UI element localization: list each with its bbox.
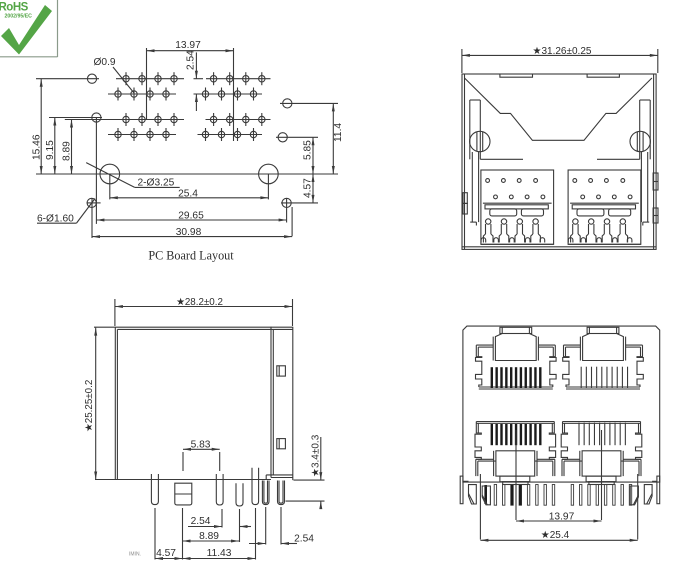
svg-text:2.54: 2.54 (191, 516, 211, 527)
svg-text:Ø0.9: Ø0.9 (94, 57, 116, 68)
svg-text:13.97: 13.97 (175, 40, 201, 51)
svg-text:PC Board Layout: PC Board Layout (148, 249, 234, 263)
svg-text:2.54: 2.54 (294, 534, 314, 545)
svg-text:4.57: 4.57 (303, 178, 314, 198)
svg-text:★31.26±0.25: ★31.26±0.25 (533, 46, 592, 57)
svg-text:★25.4: ★25.4 (541, 530, 570, 541)
svg-text:2002/95/EC: 2002/95/EC (5, 13, 33, 19)
svg-text:★25.25±0.2: ★25.25±0.2 (84, 380, 95, 432)
svg-text:2.54: 2.54 (186, 50, 197, 70)
svg-text:11.4: 11.4 (333, 123, 344, 142)
svg-text:9.15: 9.15 (45, 140, 56, 160)
svg-text:RoHS: RoHS (0, 2, 29, 14)
svg-text:★3.4±0.3: ★3.4±0.3 (311, 434, 322, 477)
svg-text:5.83: 5.83 (191, 440, 211, 451)
svg-text:5.85: 5.85 (303, 140, 314, 160)
svg-text:8.89: 8.89 (62, 141, 73, 161)
svg-text:4.57: 4.57 (156, 548, 176, 559)
svg-text:★28.2±0.2: ★28.2±0.2 (176, 297, 223, 308)
svg-text:30.98: 30.98 (176, 227, 202, 238)
svg-text:IMIN.: IMIN. (129, 552, 141, 558)
svg-text:25.4: 25.4 (178, 188, 198, 199)
svg-text:11.43: 11.43 (207, 548, 232, 559)
svg-text:13.97: 13.97 (549, 511, 575, 522)
svg-text:2-Ø3.25: 2-Ø3.25 (138, 177, 175, 188)
svg-text:29.65: 29.65 (178, 211, 204, 222)
svg-text:8.89: 8.89 (199, 531, 219, 542)
svg-text:15.46: 15.46 (32, 134, 43, 160)
